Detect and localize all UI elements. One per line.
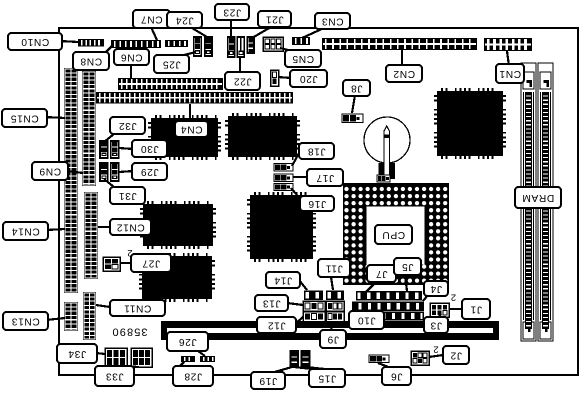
- connector CN10 header: [78, 39, 104, 47]
- label J8: [343, 80, 370, 96]
- wire J11 tail: [331, 277, 333, 290]
- wire CN10 tail: [60, 41, 78, 42]
- label J19: [251, 372, 285, 389]
- connector CN4 long header: [96, 92, 293, 104]
- label J21: [258, 11, 291, 27]
- DRAM SIMM slot 1: [521, 63, 536, 341]
- svg-text:J32: J32: [118, 120, 136, 131]
- jumper J9 block rows: [326, 291, 344, 301]
- label J7: [367, 265, 396, 282]
- connector CN7 header: [111, 40, 161, 48]
- connector CN9 column 2: [82, 71, 96, 186]
- jumper J23 block: [228, 37, 235, 57]
- label CN14: [3, 222, 48, 240]
- svg-text:J24: J24: [175, 15, 193, 26]
- wire J20 tail: [278, 77, 291, 78]
- jumper J25 block: [194, 37, 201, 56]
- label CN10: [8, 33, 62, 50]
- wire J23 tail: [230, 19, 232, 37]
- svg-text:J22: J22: [233, 76, 251, 87]
- svg-text:CN6: CN6: [120, 52, 142, 63]
- wire J30 tail: [119, 148, 133, 149]
- wire J18 tail: [292, 151, 300, 166]
- label DRAM: [515, 187, 561, 208]
- svg-text:DRAM: DRAM: [522, 192, 554, 203]
- connector CN12 column 3: [84, 192, 98, 279]
- label J15: [309, 369, 345, 387]
- jumper J2 block: [411, 351, 429, 365]
- connector CN5 block: [263, 37, 283, 51]
- svg-text:J25: J25: [162, 59, 180, 70]
- wire CN7 tail: [151, 27, 157, 40]
- label J3: [424, 317, 448, 333]
- chip U4 QFP: [140, 201, 216, 249]
- label J25: [154, 55, 189, 73]
- jumper J5 header row: [352, 312, 424, 321]
- svg-text:CN8: CN8: [80, 56, 102, 67]
- chip U3 QFP: [225, 113, 300, 160]
- wire CN15 tail: [45, 117, 65, 118]
- wire CN3 tail: [302, 28, 324, 38]
- svg-text:CN15: CN15: [10, 113, 38, 124]
- svg-text:CN7: CN7: [140, 14, 162, 25]
- jumper J21 block: [247, 37, 254, 53]
- jumper J32 block: [100, 141, 108, 158]
- pin label 2 near J2: [433, 344, 438, 355]
- label CN11: [110, 300, 165, 316]
- svg-text:J5: J5: [402, 261, 414, 272]
- svg-text:J4: J4: [430, 283, 442, 294]
- jumper J12 block rows: [303, 312, 325, 322]
- bus connector bar: [161, 321, 499, 340]
- label CN9: [32, 162, 68, 180]
- connector J24 header: [165, 40, 188, 47]
- jumper J24 block: [205, 37, 212, 56]
- pin label 2 near J1: [451, 292, 456, 303]
- chip U2 QFP: [148, 115, 221, 160]
- jumper J29 block: [111, 163, 119, 181]
- wire J4 tail: [423, 295, 428, 301]
- svg-text:J23: J23: [223, 7, 241, 18]
- wire CN1 tail: [507, 51, 509, 66]
- label CN13: [3, 312, 48, 330]
- label CN5: [285, 50, 321, 67]
- svg-text:35890: 35890: [111, 325, 147, 337]
- jumper J17 block: [274, 174, 293, 182]
- label CN15: [2, 109, 47, 127]
- wire J25 tail: [180, 52, 196, 56]
- svg-text:J3: J3: [430, 320, 442, 331]
- svg-text:J19: J19: [259, 375, 277, 386]
- label J1: [462, 299, 490, 319]
- label J6: [382, 367, 411, 385]
- svg-text:J31: J31: [118, 190, 136, 201]
- connector CN6 header: [118, 78, 223, 90]
- label J27: [131, 254, 171, 272]
- label J34: [57, 344, 97, 363]
- label J17: [307, 169, 343, 186]
- svg-text:J11: J11: [325, 263, 342, 274]
- svg-text:CN3: CN3: [321, 16, 343, 27]
- jumper J15 block: [302, 351, 310, 367]
- wire CN5 tail: [280, 48, 292, 51]
- svg-text:J28: J28: [184, 371, 202, 382]
- svg-text:J20: J20: [299, 73, 317, 84]
- wire J6 tail: [378, 363, 391, 368]
- jumper J28 header: [181, 356, 195, 362]
- svg-text:J17: J17: [316, 172, 334, 183]
- jumper J26 header: [200, 356, 215, 362]
- label J29: [132, 163, 167, 180]
- label CN8: [73, 52, 109, 70]
- svg-text:J21: J21: [265, 14, 283, 25]
- svg-text:CN10: CN10: [21, 36, 49, 47]
- wire J31 tail: [104, 179, 114, 187]
- jumper J7 header row: [356, 291, 422, 301]
- text 35890: [111, 325, 147, 337]
- jumper J20 block: [271, 70, 279, 86]
- svg-text:J15: J15: [318, 373, 336, 384]
- label CN3: [315, 13, 350, 29]
- label J10: [349, 311, 384, 329]
- label J30: [132, 140, 167, 157]
- chip U1 top-right QFP: [434, 88, 506, 159]
- svg-text:J1: J1: [470, 304, 482, 315]
- wire J16 tail: [291, 188, 302, 201]
- jumper J14 block rows: [304, 291, 323, 301]
- label J28: [173, 366, 213, 386]
- wire CN12 tail: [98, 226, 111, 228]
- svg-text:J2: J2: [450, 350, 462, 361]
- connector CN15/CN9 bus column 1: [64, 68, 78, 293]
- svg-text:CN14: CN14: [11, 226, 39, 237]
- wire J8 tail: [352, 95, 355, 113]
- label J14: [266, 272, 300, 288]
- wire J28 tail: [180, 362, 184, 366]
- jumper J34 block: [105, 348, 127, 367]
- jumper J1 block: [430, 303, 449, 317]
- svg-text:CN9: CN9: [39, 166, 61, 177]
- jumper J19 block: [291, 351, 299, 367]
- svg-text:J33: J33: [105, 371, 123, 382]
- jumper J8 block: [342, 114, 363, 123]
- label J24: [167, 12, 202, 28]
- svg-text:J18: J18: [307, 146, 325, 157]
- jumper J13 block rows: [303, 301, 325, 311]
- wire J26 tail: [198, 351, 205, 356]
- jumper J22 block: [237, 37, 244, 57]
- wire J29 tail: [119, 171, 133, 172]
- wire J19 tail: [271, 367, 292, 373]
- wire CN13 tail: [46, 318, 65, 320]
- label J18: [299, 143, 334, 159]
- svg-text:CN12: CN12: [116, 222, 144, 233]
- svg-text:CN13: CN13: [11, 316, 39, 327]
- label CN2: [386, 65, 422, 82]
- svg-text:CN2: CN2: [393, 68, 415, 79]
- label J32: [110, 117, 145, 134]
- svg-text:CN5: CN5: [292, 53, 314, 64]
- wire J24 tail: [192, 28, 207, 37]
- jumper J6 header: [369, 355, 389, 363]
- wire J33 tail: [120, 366, 139, 367]
- svg-text:J7: J7: [376, 268, 388, 279]
- wire J34 tail: [96, 353, 105, 354]
- connector CN3 header: [292, 37, 310, 45]
- label J20: [290, 70, 327, 87]
- wire CN14 tail: [47, 229, 65, 230]
- svg-text:2: 2: [127, 247, 132, 258]
- label J16: [300, 196, 334, 211]
- svg-text:J9: J9: [327, 334, 339, 345]
- label J23: [215, 4, 249, 20]
- connector CN2 header: [322, 38, 477, 50]
- wire J7 tail: [366, 282, 376, 292]
- wire J5 tail: [405, 275, 407, 291]
- jumper J30 block: [111, 141, 119, 158]
- label J13: [255, 295, 288, 311]
- chip U5 QFP: [247, 192, 316, 262]
- svg-text:CN1: CN1: [499, 68, 521, 79]
- label J12: [257, 317, 296, 333]
- svg-text:CN11: CN11: [124, 303, 152, 314]
- label CN4: [175, 121, 208, 137]
- connector CN13: [64, 302, 78, 331]
- label CPU: [375, 225, 412, 244]
- wire J9 tail: [331, 322, 333, 330]
- wire J2 tail: [429, 355, 443, 357]
- label J9: [320, 330, 346, 348]
- wire J3 tail: [438, 314, 441, 318]
- wire J13 tail: [287, 303, 303, 305]
- jumper J33 block: [131, 348, 152, 367]
- capacitor C1: [377, 175, 390, 182]
- pin label 2 near J27: [127, 247, 132, 258]
- label J22: [225, 72, 260, 90]
- jumper J18 block: [274, 164, 293, 172]
- connector CN1 header: [484, 38, 532, 51]
- wire CN8 tail: [104, 45, 113, 54]
- wire CN4 tail: [189, 104, 191, 122]
- jumper J9 block rows 3: [326, 312, 344, 322]
- svg-text:CPU: CPU: [382, 229, 405, 240]
- connector CN11: [83, 292, 96, 340]
- label CN12: [110, 219, 151, 235]
- svg-text:J10: J10: [357, 315, 375, 326]
- CPU socket U7 PGA: [343, 183, 449, 285]
- jumper J9 block rows 2: [326, 301, 344, 311]
- label J26: [167, 332, 208, 351]
- wire J10 tail: [355, 306, 357, 312]
- DRAM SIMM slot 2: [538, 63, 553, 341]
- svg-text:J29: J29: [140, 166, 158, 177]
- jumper J16 block: [274, 184, 293, 191]
- svg-text:J13: J13: [262, 298, 280, 309]
- label J11: [318, 259, 350, 277]
- jumper J27 block: [103, 257, 120, 271]
- jumper J31 block: [100, 163, 108, 181]
- wire J12 tail: [295, 317, 303, 324]
- chip U6 QFP: [139, 253, 215, 302]
- wire J15 tailA: [294, 367, 321, 370]
- svg-text:J26: J26: [178, 336, 196, 347]
- svg-text:J14: J14: [274, 275, 292, 286]
- wire J27 tail: [120, 262, 131, 264]
- label CN7: [133, 10, 170, 28]
- wire CN11 tail: [96, 305, 110, 307]
- svg-text:J6: J6: [391, 371, 403, 382]
- label J2: [443, 346, 469, 364]
- svg-text:J30: J30: [140, 143, 158, 154]
- svg-text:2: 2: [433, 344, 438, 355]
- jumper J10 header row: [352, 302, 424, 312]
- wire J14 tail: [299, 280, 307, 290]
- svg-text:CN4: CN4: [180, 124, 202, 135]
- wire J21 tail: [252, 27, 271, 38]
- svg-text:J12: J12: [267, 320, 285, 331]
- wire J22 tail: [239, 57, 241, 73]
- svg-text:J8: J8: [351, 83, 363, 94]
- label CN6: [114, 49, 149, 65]
- svg-text:2: 2: [451, 292, 456, 303]
- label J33: [95, 366, 134, 386]
- wire CN2 tail: [401, 50, 403, 66]
- svg-text:J16: J16: [308, 198, 326, 209]
- svg-text:J34: J34: [68, 348, 86, 359]
- label J4: [424, 281, 448, 296]
- wire J17 tail: [293, 176, 307, 178]
- wire J1 tail: [450, 308, 463, 310]
- label CN1: [496, 64, 524, 83]
- wire J32 tail: [104, 134, 114, 142]
- battery BT1: [364, 117, 410, 180]
- label J31: [110, 187, 145, 204]
- wire CN9 tail: [66, 171, 83, 173]
- wire J15 tailB: [306, 367, 334, 370]
- wire CN6 tail: [130, 64, 132, 78]
- svg-text:J27: J27: [142, 258, 160, 269]
- board outline: [59, 28, 578, 375]
- label J5: [394, 258, 421, 275]
